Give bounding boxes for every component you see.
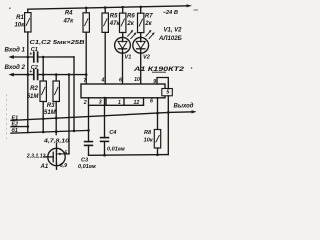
junction R2 node B (42, 73, 45, 76)
junction R4 node B pin7 (85, 73, 88, 76)
svg-text:12: 12 (134, 100, 140, 106)
svg-text:47к: 47к (109, 21, 121, 27)
junction R1 column bus2 (42, 131, 45, 134)
wire R3 bottom through buses toward A1 inset (55, 102, 57, 135)
wire R1 column down to bus2 (27, 32, 29, 133)
junction C4 ground bus (103, 154, 106, 157)
scan stray dot (191, 67, 193, 69)
junction R3 bus2 (55, 130, 58, 133)
wire node B (input 2 line) (13, 74, 34, 76)
svg-text:Е2: Е2 (12, 122, 19, 128)
svg-text:10: 10 (134, 77, 140, 83)
node input 2 arrow (9, 73, 14, 77)
svg-text:Вход 2: Вход 2 (5, 65, 26, 71)
resistor R4 (83, 8, 89, 32)
svg-text:6: 6 (150, 99, 153, 105)
wire node A drop column (73, 57, 75, 131)
wire R6 to LED V1 (122, 33, 124, 38)
junction R1 node A (27, 56, 30, 59)
capacitor C4 (101, 98, 109, 156)
svg-text:2: 2 (83, 100, 87, 106)
node output arrow (168, 111, 193, 114)
capacitor C2 (34, 70, 38, 80)
svg-text:10к: 10к (144, 137, 154, 143)
node supply arrow -24V (187, 4, 193, 7)
svg-text:47к: 47к (62, 18, 74, 24)
capacitor C1 (34, 52, 38, 62)
wire R5 column to IC pin 4 (104, 32, 106, 84)
LED V2 (133, 30, 155, 53)
svg-text:51М: 51М (27, 94, 40, 100)
junction R8 bus1 (156, 112, 159, 115)
svg-text:V2: V2 (143, 55, 151, 61)
resistor R1 (25, 9, 31, 32)
junction R1 column node B (27, 73, 30, 76)
wire pin 9 elbow to tab (157, 78, 168, 89)
svg-text:5: 5 (166, 90, 169, 96)
wire R7 to LED V2 (140, 33, 142, 38)
transistor A1 inset mosfet (45, 144, 70, 170)
wire bus1 (E1 rail) (11, 113, 168, 121)
junction R2 node A (42, 56, 45, 59)
svg-text:R3: R3 (47, 103, 55, 109)
wire pin 6 drop to bus1 and R8 column (157, 98, 159, 130)
junction riser node B (68, 73, 71, 76)
svg-text:4,7,8,10: 4,7,8,10 (43, 138, 69, 144)
wire bottom ground bus (89, 154, 169, 157)
svg-text:2к: 2к (144, 21, 152, 27)
svg-text:А1 К190КТ2: А1 К190КТ2 (133, 66, 185, 73)
scan edge mark right (194, 9, 199, 11)
svg-text:Выход: Выход (174, 103, 194, 109)
svg-text:V1: V1 (125, 55, 132, 61)
svg-text:V1, V2: V1, V2 (164, 27, 183, 33)
svg-text:6: 6 (119, 77, 122, 83)
svg-text:51М: 51М (44, 110, 57, 116)
junction R3 node B (55, 73, 58, 76)
svg-text:−24 В: −24 В (163, 10, 179, 16)
svg-text:б1: б1 (12, 127, 18, 134)
svg-text:6,9: 6,9 (60, 163, 67, 169)
junction E2 column (27, 125, 30, 128)
svg-text:С4: С4 (109, 130, 117, 136)
svg-text:4: 4 (101, 78, 105, 84)
junction R2 bus1 (42, 118, 45, 121)
svg-text:С3: С3 (81, 157, 89, 163)
junction R4 top bus (85, 7, 88, 10)
junction R3 bus1 (55, 117, 58, 120)
svg-text:R1: R1 (16, 15, 24, 21)
svg-text:R4: R4 (65, 11, 73, 17)
svg-text:0,01мк: 0,01мк (107, 147, 126, 153)
svg-text:+: + (29, 52, 32, 58)
resistor R2 (40, 57, 46, 102)
svg-text:R6: R6 (127, 13, 135, 19)
capacitor C3 (85, 142, 93, 156)
node input 1 arrow (9, 55, 14, 59)
wire node B continues to pin7 column (38, 74, 87, 76)
svg-text:R8: R8 (144, 130, 152, 136)
resistor R8 (154, 130, 160, 155)
resistor R5 (102, 8, 108, 33)
svg-text:R2: R2 (30, 86, 38, 92)
wire R2 bottom to bus2 (42, 102, 44, 133)
svg-text:А1: А1 (40, 164, 49, 170)
junction output node (167, 111, 170, 114)
IC bottom pin strip (89, 98, 144, 106)
junction R8 ground bus (156, 153, 159, 156)
wire R4 column to IC pin 7 (85, 32, 87, 84)
svg-text:R5: R5 (110, 13, 118, 19)
svg-text:С1,С2 5мк×25В: С1,С2 5мк×25В (30, 40, 85, 46)
svg-text:9: 9 (153, 79, 156, 85)
resistor R7 (138, 7, 144, 33)
IC pin-5 tab (162, 89, 173, 96)
svg-text:10к: 10к (14, 23, 25, 29)
svg-text:+: + (29, 69, 32, 75)
svg-text:Е1: Е1 (12, 115, 19, 121)
LED V1 (115, 30, 137, 53)
svg-text:2к: 2к (126, 21, 134, 27)
svg-text:1: 1 (118, 100, 121, 106)
wire V2 to IC pin 10 (140, 53, 142, 84)
wire output column (167, 96, 169, 155)
wire E2 stub (11, 126, 28, 128)
svg-text:5: 5 (64, 151, 67, 157)
junction R7 top bus (139, 6, 142, 9)
svg-text:0,01мк: 0,01мк (78, 164, 97, 170)
svg-text:2,3,1,12: 2,3,1,12 (26, 154, 46, 160)
wire node A (input 1 line) (13, 56, 34, 58)
svg-text:R7: R7 (145, 13, 153, 19)
svg-text:Вход 1: Вход 1 (5, 48, 26, 54)
junction R6 top bus (121, 6, 124, 9)
wire pin 2 column to C3 (88, 98, 90, 142)
scan stray underline under K190KT2 (152, 71, 166, 73)
svg-text:АЛ102Б: АЛ102Б (158, 36, 183, 42)
junction bus2 pin2 column (87, 129, 90, 132)
junction R5 top bus (104, 6, 107, 9)
wire top supply bus (28, 6, 188, 9)
wire node A continues to corner (38, 56, 74, 58)
resistor R3 (53, 75, 59, 102)
scan speck (9, 7, 11, 9)
svg-text:3: 3 (99, 100, 102, 106)
scan crease artifact (6, 94, 8, 140)
wire riser from node B to A1 source lead (68, 75, 70, 154)
wire V1 to IC pin 6 (122, 53, 124, 84)
wire bus2 (b1 rail) (11, 130, 89, 133)
IC A1 main rectangle (81, 84, 165, 98)
resistor R6 (120, 7, 126, 32)
junction node A column bus2 (73, 130, 76, 133)
